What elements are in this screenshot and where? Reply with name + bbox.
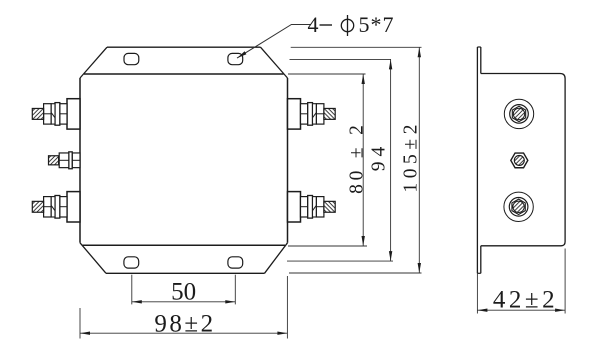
svg-text:42±2: 42±2 xyxy=(493,287,558,314)
body outline xyxy=(80,74,288,245)
leader 4-phi5*7 xyxy=(237,12,395,58)
screw bottom (side view) xyxy=(504,192,533,221)
terminal left middle (ground) xyxy=(49,152,81,169)
dimension 94 xyxy=(287,59,393,261)
terminal left top xyxy=(32,99,80,129)
svg-text:5*7: 5*7 xyxy=(359,12,395,37)
screw middle (side view) xyxy=(511,153,528,168)
dimension 50 xyxy=(132,275,236,306)
dimension 98±2 xyxy=(80,276,287,339)
body side outline xyxy=(481,74,565,246)
top mounting flange xyxy=(80,47,288,78)
dimension 105±2 xyxy=(289,47,422,273)
terminal right top xyxy=(288,99,336,129)
screw top (side view) xyxy=(504,99,533,128)
mounting hole top-left xyxy=(124,53,139,64)
svg-text:105±2: 105±2 xyxy=(400,120,421,193)
mounting hole bottom-right xyxy=(228,257,243,268)
svg-text:4: 4 xyxy=(308,12,319,37)
dimension 80±2 xyxy=(288,74,368,246)
terminal left bottom xyxy=(32,192,80,222)
mounting hole top-right xyxy=(228,53,243,64)
terminal right bottom xyxy=(288,192,336,222)
svg-text:80 ± 2: 80 ± 2 xyxy=(347,121,368,194)
svg-text:94: 94 xyxy=(368,142,389,172)
svg-text:98±2: 98±2 xyxy=(154,310,215,337)
bottom mounting flange xyxy=(80,243,288,273)
svg-text:50: 50 xyxy=(171,279,196,306)
mounting hole bottom-left xyxy=(124,257,139,268)
dimension 42±2 xyxy=(477,249,565,314)
mounting plate edge xyxy=(477,47,480,273)
